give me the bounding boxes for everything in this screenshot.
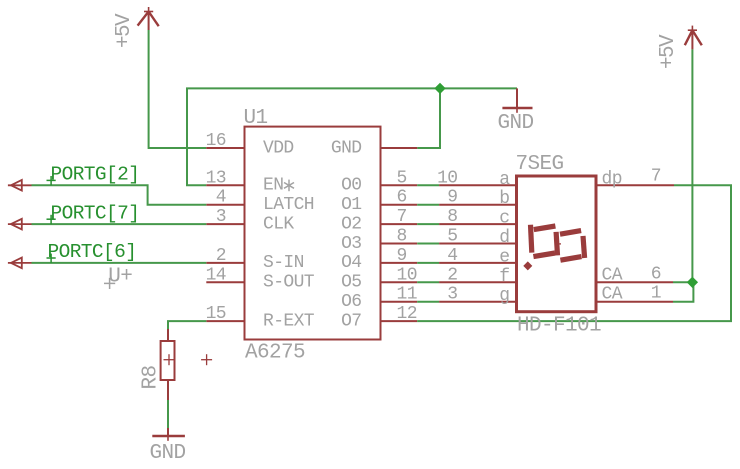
svg-text:O1: O1	[341, 195, 361, 215]
svg-text:R-EXT: R-EXT	[263, 311, 315, 331]
pin 1 GND stub	[380, 147, 418, 149]
wire PORTG[2] to pin 4	[32, 185, 207, 204]
svg-text:S-OUT: S-OUT	[263, 273, 315, 293]
display 7SEG box	[517, 176, 597, 312]
resistor R8 top pin	[167, 329, 169, 341]
resistor R8 value origin cross	[201, 354, 212, 365]
svg-text:7SEG: 7SEG	[516, 153, 564, 176]
port arrow PORTC[6]	[8, 258, 32, 269]
svg-text:O6: O6	[341, 292, 361, 312]
IC pin EN* asterisk	[284, 180, 294, 192]
svg-text:+5V: +5V	[657, 34, 680, 69]
svg-text:+5V: +5V	[113, 13, 136, 48]
pin 13 EN* stub	[206, 184, 245, 186]
display-side pin numbers	[437, 168, 457, 304]
wire segments O0-O6 to display pins	[417, 185, 439, 301]
svg-text:VDD: VDD	[263, 138, 294, 158]
svg-text:S-IN: S-IN	[263, 253, 304, 273]
port arrow PORTC[7]	[8, 219, 32, 230]
resistor R8 body	[161, 341, 175, 380]
pin 5 O0 stub	[380, 184, 418, 186]
display pin CA-6 stub	[596, 281, 673, 283]
display digit segment c (right vertical)	[583, 236, 585, 258]
svg-text:U1: U1	[244, 107, 268, 130]
svg-text:14: 14	[206, 265, 226, 285]
display pin d stub	[439, 243, 517, 245]
svg-text:6: 6	[397, 188, 407, 208]
svg-text:CA: CA	[602, 285, 623, 305]
wire +5V right vertical to CA junction	[691, 49, 693, 282]
wire EN* net: pin13 left, up, across top to GND	[187, 88, 517, 185]
pin 2 S-IN stub	[206, 262, 245, 264]
svg-text:EN: EN	[263, 176, 283, 196]
svg-text:f: f	[499, 267, 509, 287]
wire +5V left vertical then to pin 16	[149, 30, 207, 148]
junction at top net	[434, 83, 445, 94]
supply +5V symbol right	[685, 26, 702, 50]
display pin e stub	[439, 262, 517, 264]
display pin CA-1 stub	[596, 301, 673, 303]
svg-text:9: 9	[397, 246, 407, 266]
display pin a stub	[439, 184, 517, 186]
resistor R8 origin cross	[164, 354, 175, 365]
svg-text:U+: U+	[108, 266, 132, 289]
display digit segment f (left vertical)	[531, 225, 532, 253]
svg-text:3: 3	[216, 207, 226, 227]
IC-side right pin numbers	[397, 168, 417, 324]
svg-text:O4: O4	[341, 253, 361, 273]
svg-text:1: 1	[651, 284, 661, 304]
svg-text:6: 6	[651, 264, 661, 284]
wire PORTC[7] to pin 3	[32, 223, 207, 225]
pin 7 O2 stub	[380, 223, 418, 225]
label origin cross PORTG[2]	[47, 176, 56, 185]
svg-text:PORTG[2]: PORTG[2]	[51, 164, 140, 186]
display digit segment a (left-top bar)	[534, 226, 556, 230]
svg-text:12: 12	[397, 304, 417, 324]
svg-text:R8: R8	[140, 365, 163, 389]
wire pin1 GND pin to top net	[417, 88, 440, 148]
op IC U1 box	[245, 127, 381, 340]
pin 12 O7 stub	[380, 320, 418, 322]
svg-text:CLK: CLK	[263, 214, 294, 234]
svg-text:a: a	[499, 170, 510, 190]
svg-text:c: c	[499, 209, 509, 229]
svg-text:PORTC[6]: PORTC[6]	[48, 241, 137, 263]
pin 6 O1 stub	[380, 204, 418, 206]
wire resistor to ground	[167, 400, 169, 428]
left pin numbers	[206, 131, 226, 324]
svg-text:13: 13	[206, 168, 226, 188]
pin 9 O4 stub	[380, 262, 418, 264]
svg-text:CA: CA	[602, 265, 623, 285]
svg-text:7: 7	[397, 207, 407, 227]
supply +5V symbol left	[138, 7, 159, 30]
svg-text:4: 4	[216, 188, 226, 208]
svg-text:PORTC[7]: PORTC[7]	[51, 202, 140, 224]
svg-text:LATCH: LATCH	[263, 195, 314, 215]
label origin cross PORTC[6]	[47, 254, 56, 263]
pin 16 VDD stub	[206, 147, 245, 149]
svg-text:2: 2	[216, 246, 226, 266]
svg-text:d: d	[499, 228, 509, 248]
svg-text:e: e	[499, 247, 509, 267]
display pin f stub	[439, 281, 517, 283]
pin 4 LATCH stub	[206, 204, 245, 206]
wire CA-1 up to junction	[673, 282, 693, 301]
svg-text:7: 7	[651, 166, 661, 186]
display right pin numbers	[651, 166, 661, 303]
svg-text:5: 5	[397, 168, 407, 188]
display pin c stub	[439, 223, 517, 225]
wire PORTC[6] to pin 2	[32, 262, 207, 264]
pin 3 CLK stub	[206, 223, 245, 225]
wire CA-6 to junction	[673, 281, 692, 283]
display pin dp stub	[596, 184, 674, 186]
svg-text:dp: dp	[602, 169, 622, 189]
label origin cross PORTC[7]	[47, 215, 56, 224]
display digit segment e (left-bottom bar)	[533, 253, 555, 257]
svg-text:O5: O5	[341, 273, 361, 293]
svg-text:10: 10	[397, 265, 417, 285]
origin cross U+	[104, 278, 115, 289]
svg-text:15: 15	[206, 304, 226, 324]
svg-text:16: 16	[206, 131, 226, 151]
svg-text:O0: O0	[341, 176, 361, 196]
svg-text:O2: O2	[341, 214, 361, 234]
display pin g stub	[439, 301, 517, 303]
svg-text:O7: O7	[341, 311, 361, 331]
display decimal point	[523, 261, 532, 270]
resistor R8 bottom pin	[167, 380, 169, 400]
svg-text:O3: O3	[341, 234, 361, 254]
svg-text:b: b	[499, 189, 509, 209]
pin 15 R-EXT stub	[206, 320, 245, 322]
svg-text:HD-F101: HD-F101	[517, 315, 601, 338]
display digit middle tick	[557, 243, 561, 245]
pin 10 O5 stub	[380, 281, 418, 283]
IC pin names left column	[263, 138, 315, 331]
pin 8 O3 stub	[380, 243, 418, 245]
display pin b stub	[439, 204, 517, 206]
IC pin names right column	[331, 138, 362, 331]
svg-text:8: 8	[397, 227, 407, 247]
wire R-EXT to resistor	[168, 321, 206, 329]
display digit segment d (right-bottom bar)	[560, 257, 581, 261]
svg-text:A6275: A6275	[245, 342, 305, 365]
display pin letters	[499, 170, 510, 306]
svg-text:GND: GND	[331, 138, 362, 158]
display right pin names	[602, 169, 623, 304]
ground GND symbol top	[502, 88, 532, 112]
display digit segment g (middle vertical)	[556, 232, 557, 256]
svg-text:g: g	[499, 286, 509, 306]
ground GND symbol bottom	[152, 428, 185, 441]
pin 11 O6 stub	[380, 301, 418, 303]
junction at CA	[687, 277, 698, 288]
port arrow PORTG[2]	[8, 180, 32, 191]
display digit segment b (right-top bar)	[560, 231, 581, 235]
svg-text:GND: GND	[150, 442, 186, 465]
svg-text:GND: GND	[498, 112, 534, 135]
svg-text:11: 11	[397, 285, 417, 305]
wire O7 net to right edge	[417, 185, 731, 321]
pin 14 S-OUT stub	[206, 281, 245, 283]
